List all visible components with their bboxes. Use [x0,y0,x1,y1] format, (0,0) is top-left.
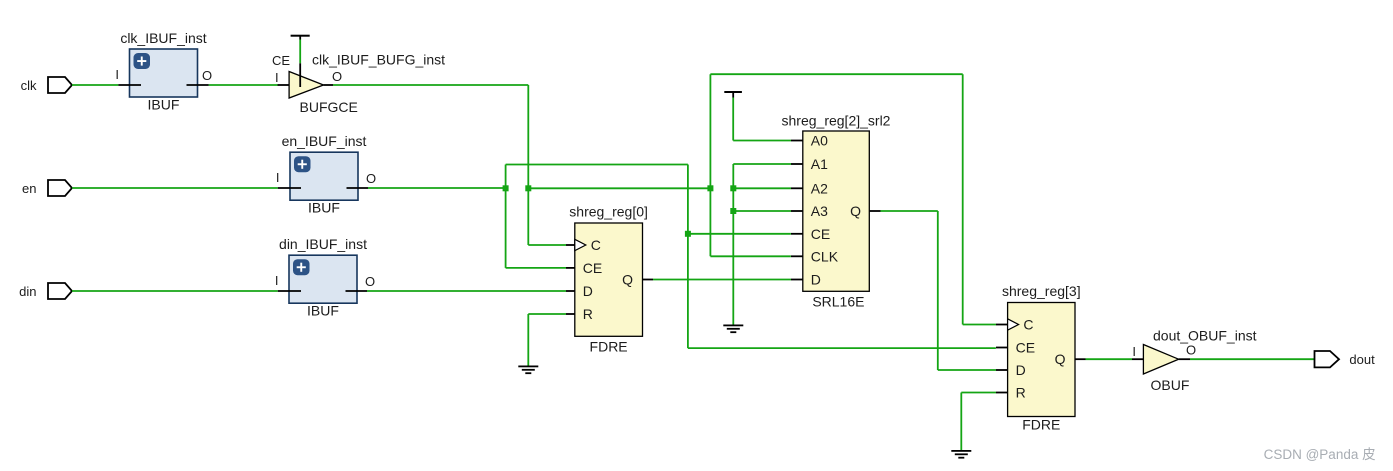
svg-text:O: O [365,274,375,289]
svg-text:Q: Q [850,203,861,219]
svg-text:CE: CE [583,260,602,276]
svg-text:A1: A1 [811,156,828,172]
svg-text:R: R [1016,385,1026,401]
svg-text:D: D [583,283,593,299]
svg-text:I: I [115,67,119,82]
svg-text:FDRE: FDRE [590,339,628,355]
svg-text:en: en [22,181,36,196]
svg-text:shreg_reg[0]: shreg_reg[0] [569,204,648,220]
wire shreg_reg[3] Q to OBUF I [1086,358,1133,360]
svg-text:O: O [366,171,376,186]
input port en [22,180,72,196]
net srl Q to shreg_reg[3] D [881,211,997,370]
wire clk: port to clk_IBUF_inst I [72,84,118,86]
power symbol (VCC) feeding BUFGCE CE [291,35,310,64]
net clk_IBUF_BUFG wires [333,74,996,324]
junction en at branch column [503,185,509,191]
svg-text:I: I [1132,344,1136,359]
wire din_IBUF: IBUF O to FDRE D [367,290,566,292]
junction gnd at A2 [730,185,736,191]
svg-text:shreg_reg[2]_srl2: shreg_reg[2]_srl2 [782,113,891,129]
ground symbol for shreg_reg[3] R [951,393,996,459]
ground symbol for shreg_reg[0] R [518,314,566,374]
svg-text:A0: A0 [811,133,828,149]
svg-text:din_IBUF_inst: din_IBUF_inst [279,236,367,252]
svg-text:Q: Q [1055,351,1066,367]
junction gnd at A3 [730,208,736,214]
svg-text:SRL16E: SRL16E [812,294,864,310]
svg-text:FDRE: FDRE [1022,417,1060,433]
input port din [19,283,72,299]
svg-text:Q: Q [622,272,633,288]
svg-text:dout_OBUF_inst: dout_OBUF_inst [1153,328,1257,344]
svg-text:A3: A3 [811,203,828,219]
svg-text:CSDN @Panda 皮: CSDN @Panda 皮 [1264,447,1376,462]
svg-text:I: I [275,70,279,85]
svg-text:OBUF: OBUF [1151,377,1190,393]
svg-text:IBUF: IBUF [307,303,339,319]
junction clk at SRL16E column [707,185,713,191]
svg-text:O: O [202,68,212,83]
svg-text:IBUF: IBUF [308,200,340,216]
svg-text:clk_IBUF_inst: clk_IBUF_inst [120,30,206,46]
wire clk_IBUF: IBUF O to BUFGCE I [209,84,278,86]
svg-text:CE: CE [272,53,290,68]
svg-text:C: C [1023,317,1033,333]
ground net for SRL16E A1 A2 A3 [723,164,791,333]
svg-text:C: C [591,237,601,253]
buffer clk_IBUF_BUFG_inst (BUFGCE) [272,52,445,116]
svg-text:IBUF: IBUF [148,97,180,113]
net en_IBUF wires [368,165,996,349]
svg-text:clk_IBUF_BUFG_inst: clk_IBUF_BUFG_inst [312,52,445,68]
buffer clk_IBUF_inst (IBUF) [115,30,212,113]
input port clk [21,77,72,93]
svg-text:A2: A2 [811,180,828,196]
svg-text:O: O [332,69,342,84]
svg-text:I: I [275,273,279,288]
svg-text:CE: CE [811,226,830,242]
buffer din_IBUF_inst (IBUF) [275,236,375,319]
svg-text:BUFGCE: BUFGCE [300,99,358,115]
svg-text:D: D [811,272,821,288]
svg-text:dout: dout [1349,352,1375,367]
buffer dout_OBUF_inst (OBUF) [1132,328,1257,394]
svg-text:D: D [1016,362,1026,378]
junction clk at en-row crossing [525,185,531,191]
wire shreg_reg[0] Q to SRL16E D [653,279,791,281]
junction en at SRL16E CE branch [685,231,691,237]
output port dout [1315,351,1376,367]
wire din: port to din_IBUF_inst I [72,290,278,292]
svg-text:R: R [583,306,593,322]
svg-text:din: din [19,284,36,299]
flip-flop shreg_reg[0] (FDRE) [566,204,653,355]
wire en: port to en_IBUF_inst I [72,187,278,189]
flip-flop shreg_reg[3] (FDRE) [996,283,1086,433]
buffer en_IBUF_inst (IBUF) [276,133,376,216]
svg-text:O: O [1186,343,1196,358]
power symbol (VCC) feeding SRL16E A0 [724,91,791,141]
watermark CSDN [1264,447,1376,462]
svg-text:CE: CE [1016,340,1035,356]
svg-text:I: I [276,170,280,185]
svg-text:CLK: CLK [811,248,839,264]
shift register shreg_reg[2]_srl2 (SRL16E) [782,113,891,310]
svg-text:en_IBUF_inst: en_IBUF_inst [282,133,367,149]
svg-text:clk: clk [21,78,37,93]
svg-text:shreg_reg[3]: shreg_reg[3] [1002,283,1081,299]
wire dout: OBUF O to port [1190,358,1315,360]
